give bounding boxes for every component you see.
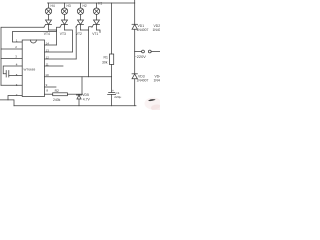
svg-text:R1: R1 [104,56,108,60]
svg-text:1N4007: 1N4007 [154,78,161,82]
wire right vertical to VD3 [134,52,136,74]
wire pin10 long to R1 chain [45,76,112,78]
wire pin5 from C2 [9,75,22,77]
zener diode VD5 [76,77,82,106]
svg-text:2: 2 [15,45,17,49]
IC U1 WT6669 body [22,40,44,97]
terminal circle 1 [135,50,145,53]
resistor R1 [110,3,114,92]
wire pin12 [45,58,77,60]
wire pin13 [45,51,73,53]
lamp H2 [77,3,83,14]
svg-text:13: 13 [46,48,50,52]
wire gate VT3 staircase to pin1 [13,27,60,42]
wire right riser above bus [134,0,136,3]
svg-text:8: 8 [46,88,48,92]
wire pin3 [1,58,22,60]
wire bottom-left hook [0,100,14,106]
svg-text:R2: R2 [55,89,59,93]
wire cathode VT4 jog to pin14 [49,30,57,45]
svg-text:10: 10 [45,73,49,77]
wire gate VT4 long left rail [1,27,44,85]
lamp H3 [61,3,67,14]
svg-text:240k: 240k [53,98,61,102]
svg-text:9: 9 [46,83,48,87]
watermark [145,98,164,112]
svg-text:H3: H3 [67,4,71,8]
svg-text:3: 3 [15,54,17,58]
wire pin14 [45,44,57,46]
svg-text:VT3: VT3 [60,32,66,36]
svg-text:4.7V: 4.7V [83,97,91,101]
diode VD1 [132,24,137,51]
svg-text:VT2: VT2 [76,32,82,36]
svg-text:1N4007: 1N4007 [137,28,149,32]
svg-text:11: 11 [46,62,49,66]
wire gate VT1 leg to pin12 [89,27,92,77]
wire pin7 hook [8,96,22,100]
thyristor VT1 [92,14,100,30]
thyristor VT3 [60,14,68,30]
thyristor VT4 [44,14,52,30]
wire pin9 [45,86,57,88]
diode VD3 [132,74,137,106]
wire right vertical main [134,3,136,24]
wire cathode VT3 jog to pin13 [65,30,73,52]
terminal circle 2 [148,50,160,53]
svg-text:220μ: 220μ [114,95,121,99]
svg-text:1N4007: 1N4007 [153,28,161,32]
svg-text:30k: 30k [102,61,108,65]
wire pin11 [45,65,64,67]
svg-text:WT6669: WT6669 [24,68,36,72]
wire pin8 to R2 [45,93,53,95]
wire pin6 [1,84,22,86]
wire bottom bus [14,105,136,107]
resistor R2 [53,93,82,96]
svg-text:VT4: VT4 [44,32,50,36]
svg-text:VT1: VT1 [92,32,98,36]
svg-text:H4: H4 [51,4,55,8]
wire gate VT2 leg to pin13 [75,27,77,59]
capacitor C1 electrolytic [108,93,116,106]
wire cathode VT2 jog to x88.6 [81,29,89,31]
svg-text:~220V: ~220V [135,54,147,59]
wire top AC bus [48,2,135,4]
lamp H4 [45,3,51,14]
svg-text:12: 12 [46,55,50,59]
svg-text:14: 14 [46,41,50,45]
lamp H1 [93,3,99,14]
thyristor VT2 [76,14,84,30]
wire pin4 with hook to C2 [3,66,22,74]
svg-text:H2: H2 [83,4,87,8]
capacitor C2 [6,71,9,78]
wire pin2 [1,48,22,50]
svg-text:1N4007: 1N4007 [137,78,149,82]
svg-text:+: + [112,89,114,93]
svg-text:7: 7 [16,93,18,97]
svg-text:H1: H1 [98,2,102,6]
wire cathode VT1 jog to pin11 [97,30,101,33]
